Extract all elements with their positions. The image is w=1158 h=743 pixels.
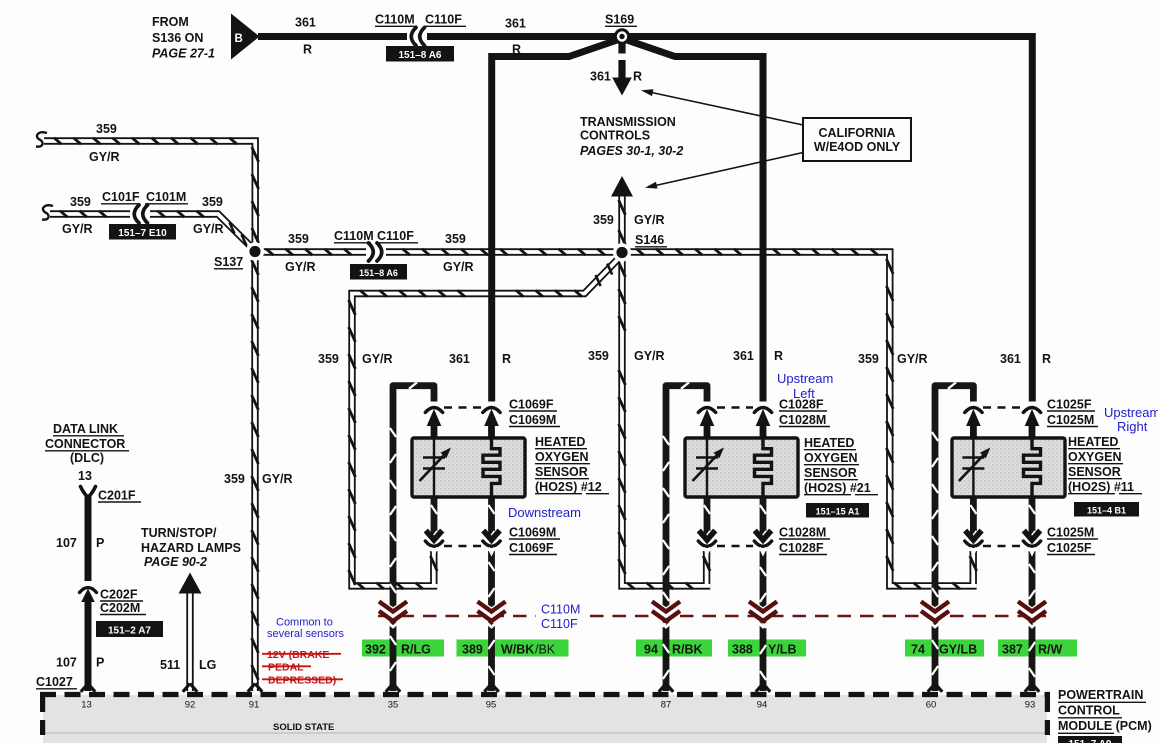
svg-text:R: R — [512, 43, 521, 57]
svg-text:35: 35 — [388, 700, 399, 711]
connector C110M/C110F inline on 361 R top wire — [407, 28, 427, 46]
wire label 94 R/BK highlight — [636, 640, 712, 657]
wire 359 GY/R stub to HO2S #21 lower connector C1028F — [703, 551, 710, 584]
annotation C110M C110F (blue) — [541, 603, 580, 632]
svg-text:387: 387 — [1002, 643, 1023, 657]
svg-text:C1069M: C1069M — [509, 526, 556, 540]
svg-text:HAZARD LAMPS: HAZARD LAMPS — [141, 541, 241, 555]
svg-text:R: R — [1042, 352, 1051, 366]
svg-text:C110F: C110F — [425, 13, 462, 27]
svg-text:C1028M: C1028M — [779, 413, 826, 427]
svg-text:151–7 E10: 151–7 E10 — [118, 228, 167, 239]
svg-text:C202F: C202F — [100, 588, 138, 602]
svg-text:359: 359 — [202, 195, 223, 209]
arrow up 511 LG wire to TURN/STOP/HAZARD LAMPS from PCM pin 92 — [179, 573, 202, 692]
wire 359 GY/R top-left horizontal (circuit 359) with break squiggle — [36, 132, 259, 251]
svg-text:361: 361 — [1000, 352, 1021, 366]
svg-text:R: R — [502, 352, 511, 366]
svg-text:R: R — [774, 349, 783, 363]
label 392 R/LG text — [365, 643, 431, 657]
wire 359 GY/R from S146 down, bottom loop to HO2S #21 — [619, 252, 711, 589]
wire 387 R/W HO2S #11 right pigtail to PCM pin 93 — [1029, 496, 1035, 691]
svg-text:PAGE 90-2: PAGE 90-2 — [144, 555, 207, 569]
svg-text:Right: Right — [1117, 419, 1148, 434]
svg-text:Left: Left — [793, 386, 815, 401]
svg-text:SOLID STATE: SOLID STATE — [273, 722, 334, 733]
svg-text:LG: LG — [199, 658, 216, 672]
label FROM S136 ON PAGE 27-1 — [152, 15, 215, 61]
label 511 LG — [160, 658, 216, 672]
svg-text:GY/LB: GY/LB — [939, 643, 977, 657]
connector C1025M/C1025F lower (HO2S #11 pins) — [965, 531, 1041, 555]
labels 359 GY/R 361 R at HO2S #12 feeds — [318, 352, 511, 366]
svg-text:TURN/STOP/: TURN/STOP/ — [141, 526, 217, 540]
svg-text:DATA LINK: DATA LINK — [53, 422, 118, 436]
wire 359 GY/R from S146 diagonal to horizontal, down-loop to HO2S #12 — [349, 257, 621, 590]
svg-text:74: 74 — [911, 643, 925, 657]
svg-text:361: 361 — [590, 70, 611, 84]
svg-text:GY/R: GY/R — [62, 222, 93, 236]
label DATA LINK CONNECTOR (DLC) 13 — [45, 422, 129, 483]
labels C1028F/C1028M connectors HO2S #21 — [779, 398, 830, 556]
label HEATED OXYGEN SENSOR (HO2S) #12 — [535, 435, 609, 494]
svg-text:OXYGEN: OXYGEN — [1068, 450, 1122, 464]
splice S169 — [614, 28, 630, 44]
heated oxygen sensor HO2S #12 (U-HO2S12) body — [412, 438, 525, 497]
annotation struck-out 12V (BRAKE PEDAL DEPRESSED) (red) — [262, 649, 343, 687]
svg-text:W/E4OD ONLY: W/E4OD ONLY — [814, 140, 901, 154]
label 361 R on top wire right segment — [505, 17, 526, 57]
svg-text:388: 388 — [732, 643, 753, 657]
svg-text:OXYGEN: OXYGEN — [804, 451, 858, 465]
wire label 388 Y/LB highlight — [728, 640, 806, 657]
label HEATED OXYGEN SENSOR (HO2S) #11 — [1068, 435, 1142, 494]
label connector C1027 — [36, 675, 77, 689]
svg-text:HEATED: HEATED — [1068, 435, 1118, 449]
label 107 P lower — [56, 656, 104, 670]
label 389 W/BK/BK text — [462, 643, 556, 657]
svg-text:C1069M: C1069M — [509, 413, 556, 427]
wire 359 GY/R horizontal S137 to S146 to right corner, down to HO2S #11 loop — [255, 249, 977, 589]
callout arrow to 359 up arrow — [645, 153, 803, 189]
svg-text:361: 361 — [733, 349, 754, 363]
reference box 151-7 E10 — [109, 224, 176, 240]
svg-text:151–7 A9: 151–7 A9 — [1069, 739, 1112, 743]
svg-text:B: B — [235, 33, 243, 45]
svg-text:87: 87 — [661, 700, 672, 711]
svg-text:361: 361 — [295, 16, 316, 30]
svg-text:94: 94 — [644, 643, 658, 657]
svg-text:359: 359 — [318, 352, 339, 366]
annotation Upstream Left (blue) — [777, 371, 833, 401]
label 359 GY/R top-left wire — [89, 122, 120, 164]
svg-text:359: 359 — [593, 213, 614, 227]
svg-text:GY/R: GY/R — [262, 472, 293, 486]
wire label 387 R/W highlight — [998, 640, 1077, 657]
svg-text:(HO2S) #11: (HO2S) #11 — [1068, 480, 1134, 494]
svg-text:(DLC): (DLC) — [70, 451, 104, 465]
svg-text:HEATED: HEATED — [535, 435, 585, 449]
svg-text:OXYGEN: OXYGEN — [535, 450, 589, 464]
svg-text:359: 359 — [96, 122, 117, 136]
svg-text:C1025M: C1025M — [1047, 526, 1094, 540]
svg-text:361: 361 — [449, 352, 470, 366]
svg-text:several sensors: several sensors — [267, 628, 345, 640]
wire HO2S #12 lower left pigtail (to C1069M) — [431, 496, 437, 540]
wire 361 R right vertical down to HO2S #11 connector C1025F — [1029, 33, 1036, 404]
svg-text:C1028F: C1028F — [779, 541, 824, 555]
label splice S137 — [214, 255, 243, 269]
connector C1069F/C1069M upper (HO2S #12 pins) — [425, 402, 502, 440]
connector C101F/C101M inline on 359 wire — [130, 205, 150, 223]
svg-text:SENSOR: SENSOR — [1068, 465, 1121, 479]
label connector C201F — [98, 489, 141, 503]
wire 361 R branch S169 to HO2S #21 connector C1028F — [621, 38, 763, 404]
svg-text:FROM: FROM — [152, 15, 189, 29]
svg-text:R/BK: R/BK — [672, 643, 703, 657]
callout box CALIFORNIA W/E4OD ONLY — [803, 118, 911, 161]
svg-text:PAGE 27-1: PAGE 27-1 — [152, 47, 215, 61]
svg-text:GY/R: GY/R — [443, 260, 474, 274]
wire 392 R/LG signal HO2S #12 to PCM pin 35 (n-loop) — [390, 382, 434, 691]
svg-text:13: 13 — [81, 700, 92, 711]
svg-text:P: P — [96, 656, 104, 670]
svg-text:GY/R: GY/R — [897, 352, 928, 366]
connector C110 chevrons at sensor wires — [379, 602, 1047, 628]
svg-text:R: R — [303, 43, 312, 57]
labels 359 GY/R 361 R at HO2S #21 feeds — [588, 349, 783, 363]
annotation Upstream Right (blue) — [1104, 405, 1158, 434]
svg-text:92: 92 — [185, 700, 196, 711]
svg-text:S146: S146 — [635, 233, 664, 247]
splice S146 — [613, 243, 631, 261]
svg-text:GY/R: GY/R — [634, 213, 665, 227]
svg-text:107: 107 — [56, 536, 77, 550]
svg-text:C101F: C101F — [102, 190, 140, 204]
wire 388 Y/LB HO2S #21 right pigtail to PCM pin 94 — [760, 496, 766, 691]
svg-text:95: 95 — [486, 700, 497, 711]
svg-text:60: 60 — [926, 700, 937, 711]
svg-text:CONTROL: CONTROL — [1058, 704, 1120, 718]
wire 107 P from DLC down to PCM pin 13 via C202 — [85, 495, 92, 691]
connector C110M/C110F harness split dashed line — [378, 615, 1046, 618]
svg-text:W/BK: W/BK — [501, 643, 534, 657]
annotation Common to several sensors (blue) — [267, 617, 345, 641]
labels C1069F/C1069M/C1069F connectors HO2S #12 — [509, 398, 560, 556]
wire label 389 W/BK/BK highlight — [457, 640, 569, 657]
label splice S169 — [605, 13, 637, 27]
svg-text:Common to: Common to — [276, 617, 333, 629]
svg-text:TRANSMISSION: TRANSMISSION — [580, 115, 676, 129]
svg-text:C202M: C202M — [100, 601, 140, 615]
svg-text:389: 389 — [462, 643, 483, 657]
label 388 Y/LB text — [732, 643, 796, 657]
svg-text:/BK: /BK — [535, 643, 556, 657]
heated oxygen sensor HO2S #11 (U-HO2S11) body — [952, 438, 1065, 497]
label TURN/STOP/ HAZARD LAMPS PAGE 90-2 — [141, 526, 241, 569]
label 387 R/W text — [1002, 643, 1063, 657]
svg-text:361: 361 — [505, 17, 526, 31]
heated oxygen sensor HO2S #21 (U-HO2S21) body — [685, 438, 798, 497]
label connector C202F C202M — [100, 588, 146, 616]
splice S137 — [246, 242, 264, 260]
svg-text:91: 91 — [249, 700, 260, 711]
label 361 R on top wire left segment — [295, 16, 316, 57]
svg-text:107: 107 — [56, 656, 77, 670]
svg-text:151–8 A6: 151–8 A6 — [399, 50, 442, 61]
svg-text:359: 359 — [445, 232, 466, 246]
arrow down 361 R to transmission controls — [612, 40, 632, 96]
svg-text:S137: S137 — [214, 255, 243, 269]
module PCM (Powertrain Control Module) body — [40, 695, 1050, 743]
connector C1028M/C1028F lower (HO2S #21 pins) — [698, 531, 771, 555]
reference box 151-8 A6 lower — [350, 264, 407, 280]
svg-text:P: P — [96, 536, 104, 550]
wire label 392 R/LG highlight — [362, 640, 444, 657]
svg-text:POWERTRAIN: POWERTRAIN — [1058, 688, 1143, 702]
svg-text:R/LG: R/LG — [401, 643, 431, 657]
connector C1069M/C1069F lower (HO2S #12 pins) — [425, 531, 500, 555]
svg-text:94: 94 — [757, 700, 768, 711]
wire 389 W/BK HO2S #12 right pigtail to PCM pin 95 — [488, 496, 494, 691]
connector C201F fork at DLC — [81, 487, 96, 498]
svg-text:SENSOR: SENSOR — [535, 465, 588, 479]
svg-text:C101M: C101M — [146, 190, 186, 204]
svg-text:R/W: R/W — [1038, 643, 1063, 657]
wire 74 GY/LB signal HO2S #11 to PCM pin 60 (n-loop) — [932, 382, 974, 691]
svg-text:C110M: C110M — [334, 229, 374, 243]
wire 359 GY/R stub to HO2S #12 lower connector C1069F — [430, 551, 437, 584]
svg-text:C1025F: C1025F — [1047, 541, 1092, 555]
svg-text:C110M: C110M — [375, 13, 415, 27]
svg-text:R: R — [633, 70, 642, 84]
svg-text:GY/R: GY/R — [634, 349, 665, 363]
callout arrow to 361 down arrow — [641, 89, 803, 125]
wire 361 R branch S169 to HO2S #12 connector C1069F — [492, 38, 623, 404]
svg-text:359: 359 — [70, 195, 91, 209]
svg-text:GY/R: GY/R — [285, 260, 316, 274]
svg-text:C1025M: C1025M — [1047, 413, 1094, 427]
label connector C110M C110F top — [375, 13, 466, 27]
svg-text:PEDAL: PEDAL — [268, 662, 304, 674]
off-page reference triangle B from S136 — [231, 14, 260, 60]
wire 359 GY/R from S137 down to PCM pin 91 — [252, 252, 259, 691]
svg-text:Upstream: Upstream — [1104, 405, 1158, 420]
wire label 74 GY/LB highlight — [905, 640, 984, 657]
reference box 151-4 B1 — [1074, 502, 1139, 517]
wire HO2S #21 lower left pigtail (to C1028M) — [704, 496, 710, 540]
svg-text:Upstream: Upstream — [777, 371, 833, 386]
wire 359 GY/R second-left horizontal via connector C101 with break squiggle — [42, 205, 253, 248]
label GY/R GY/R on second wire — [62, 222, 224, 236]
labels 359 GY/R 361 R at HO2S #11 feeds — [858, 352, 1051, 366]
label 359 C101F C101M 359 on second wire — [70, 190, 223, 209]
svg-text:12V (BRAKE: 12V (BRAKE — [267, 649, 329, 661]
reference box 151-8 A6 top — [386, 46, 454, 62]
wire 94 R/BK signal HO2S #21 to PCM pin 87 (n-loop) — [663, 382, 707, 691]
reference box 151-2 A7 — [96, 621, 163, 637]
svg-text:151–15 A1: 151–15 A1 — [816, 507, 860, 517]
svg-text:359: 359 — [224, 472, 245, 486]
svg-text:151–2 A7: 151–2 A7 — [108, 626, 151, 637]
PCM pin terminals (crow feet) — [81, 684, 1039, 692]
label POWERTRAIN CONTROL MODULE (PCM) — [1058, 688, 1152, 733]
svg-text:(HO2S) #21: (HO2S) #21 — [804, 481, 871, 495]
label 359 GY/R at up arrow and splice S146 — [593, 213, 667, 247]
label 359 GY/R at PCM drop — [224, 472, 293, 486]
svg-text:359: 359 — [858, 352, 879, 366]
svg-text:GY/R: GY/R — [193, 222, 224, 236]
connector C1028F/C1028M upper (HO2S #21 pins) — [698, 402, 773, 440]
svg-text:S136 ON: S136 ON — [152, 31, 203, 45]
labels C1025F/C1025M connectors HO2S #11 — [1047, 398, 1098, 556]
svg-text:CONNECTOR: CONNECTOR — [45, 437, 125, 451]
connector C1025F/C1025M upper (HO2S #11 pins) — [964, 402, 1042, 440]
svg-text:MODULE (PCM): MODULE (PCM) — [1058, 719, 1152, 733]
svg-text:C201F: C201F — [98, 489, 136, 503]
svg-text:DEPRESSED): DEPRESSED) — [268, 675, 336, 687]
svg-text:151–4 B1: 151–4 B1 — [1087, 506, 1126, 516]
svg-text:C1069F: C1069F — [509, 398, 554, 412]
svg-text:151–8 A6: 151–8 A6 — [359, 268, 398, 278]
label 361 R at down arrow — [590, 70, 642, 84]
svg-text:Y/LB: Y/LB — [768, 643, 796, 657]
label TRANSMISSION CONTROLS PAGES 30-1, 30-2 — [580, 115, 683, 158]
svg-text:13: 13 — [78, 469, 92, 483]
svg-text:359: 359 — [288, 232, 309, 246]
svg-text:359: 359 — [588, 349, 609, 363]
svg-text:(HO2S) #12: (HO2S) #12 — [535, 480, 602, 494]
svg-text:SENSOR: SENSOR — [804, 466, 857, 480]
svg-text:93: 93 — [1025, 700, 1036, 711]
arrow up 359 GY/R to S146 (to transmission controls) — [611, 176, 633, 250]
svg-text:C1025F: C1025F — [1047, 398, 1092, 412]
label 107 P upper — [56, 536, 104, 550]
svg-text:GY/R: GY/R — [362, 352, 393, 366]
label HEATED OXYGEN SENSOR (HO2S) #21 — [804, 436, 878, 495]
svg-text:HEATED: HEATED — [804, 436, 854, 450]
wire 361 R main feed from triangle B across top — [258, 33, 1032, 40]
wire HO2S #11 lower left pigtail (to C1025M) — [970, 496, 976, 540]
labels 359 GY/R and C110M C110F on S137-S146 wire — [285, 229, 474, 274]
PCM pin numbers 13 92 91 35 95 87 94 60 93 — [81, 700, 1035, 711]
svg-text:C1028M: C1028M — [779, 526, 826, 540]
svg-text:392: 392 — [365, 643, 386, 657]
svg-text:Downstream: Downstream — [508, 505, 581, 520]
svg-text:S169: S169 — [605, 13, 634, 27]
svg-text:PAGES 30-1, 30-2: PAGES 30-1, 30-2 — [580, 144, 683, 158]
svg-text:C1027: C1027 — [36, 675, 73, 689]
svg-text:C1069F: C1069F — [509, 541, 554, 555]
connector C202F/C202M inline on 107 P wire — [79, 581, 98, 602]
svg-text:C110F: C110F — [377, 229, 414, 243]
connector C110M/C110F inline on 359 wire at S137 — [366, 243, 386, 261]
reference box 151-15 A1 — [806, 503, 869, 518]
svg-text:GY/R: GY/R — [89, 150, 120, 164]
svg-text:511: 511 — [160, 658, 180, 672]
svg-text:C110F: C110F — [541, 617, 578, 631]
label 94 R/BK text — [644, 643, 703, 657]
svg-text:CONTROLS: CONTROLS — [580, 129, 650, 143]
label 74 GY/LB text — [911, 643, 977, 657]
wire 359 GY/R stub to HO2S #11 lower connector C1025F — [970, 551, 977, 584]
svg-text:C110M: C110M — [541, 603, 580, 617]
svg-text:CALIFORNIA: CALIFORNIA — [818, 126, 895, 140]
reference box 151-7 A9 — [1058, 736, 1122, 743]
